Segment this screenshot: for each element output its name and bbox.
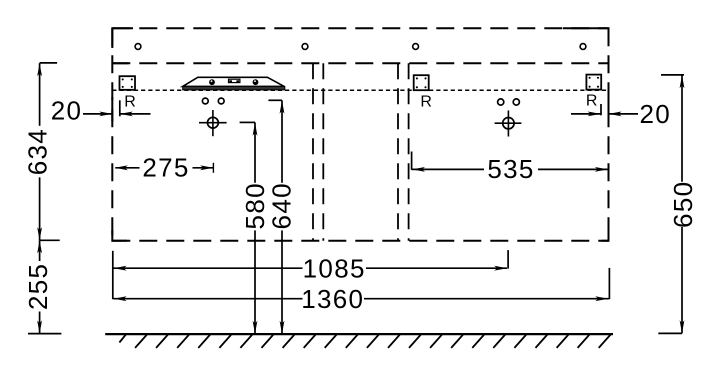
rail base bar xyxy=(183,86,285,90)
dim 1360 xyxy=(112,251,114,299)
rail notch xyxy=(229,79,240,82)
svg-text:640: 640 xyxy=(267,182,297,229)
dim 20 left xyxy=(111,97,113,122)
svg-text:634: 634 xyxy=(23,128,53,175)
svg-text:20: 20 xyxy=(640,99,672,129)
rail screw left xyxy=(209,79,215,85)
dim 20 right xyxy=(608,98,610,122)
svg-text:1085: 1085 xyxy=(303,254,366,284)
right hole pair xyxy=(498,99,504,105)
dim 640 xyxy=(268,99,282,101)
bracket left xyxy=(120,76,136,90)
svg-text:255: 255 xyxy=(23,263,53,310)
dim 1085 xyxy=(114,267,303,269)
dim 535 xyxy=(411,152,413,170)
svg-text:20: 20 xyxy=(51,96,83,126)
dim 634 xyxy=(40,62,58,64)
svg-text:650: 650 xyxy=(668,181,698,228)
dim 275 xyxy=(115,167,139,169)
left hole pair xyxy=(202,98,208,104)
bracket right xyxy=(586,75,601,90)
floor line xyxy=(105,333,613,335)
carcass top line xyxy=(112,62,608,64)
wall reference fine dashed line xyxy=(112,89,608,91)
drain crosshair left xyxy=(208,117,219,128)
rail screw right xyxy=(253,79,259,85)
svg-text:535: 535 xyxy=(487,154,534,184)
top fixing holes xyxy=(135,44,141,50)
drain crosshair right xyxy=(503,118,514,129)
bracket middle xyxy=(414,75,429,90)
cabinet outline (dashed rectangle) xyxy=(112,27,608,29)
dim 650 xyxy=(661,74,684,76)
dim 255 xyxy=(40,239,60,241)
mounting rail trapezoid xyxy=(183,77,285,86)
solid corners of cabinet xyxy=(112,28,133,48)
svg-text:275: 275 xyxy=(142,153,189,183)
dim 580 xyxy=(240,121,255,123)
floor hatching xyxy=(119,335,610,348)
svg-text:1360: 1360 xyxy=(301,284,364,314)
svg-text:R: R xyxy=(586,92,598,109)
svg-text:R: R xyxy=(420,94,432,111)
svg-text:R: R xyxy=(124,94,136,111)
svg-text:580: 580 xyxy=(240,182,270,229)
internal partition dashed lines xyxy=(312,63,314,241)
